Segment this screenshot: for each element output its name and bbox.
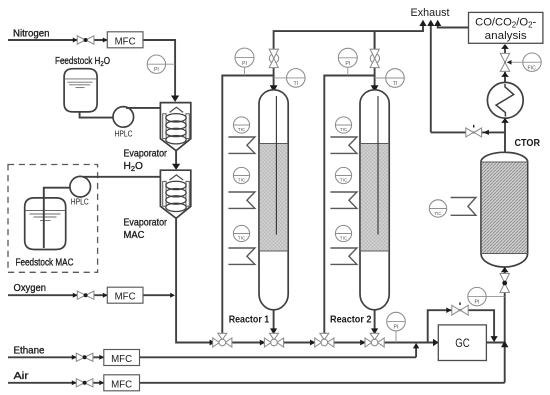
vessel evaporator H2O [160,103,190,151]
vessel feedstock MAC tank [25,198,66,250]
wire arrow into evaporator MAC [172,164,180,170]
svg-text:MFC: MFC [111,353,132,365]
svg-text:PI: PI [345,61,350,67]
wire exhaust line from CTOR bypass [430,26,432,133]
wire arrow before valve V4 [360,340,366,346]
wire air line to CTOR feed riser [8,268,505,383]
instrument TIC reactor 1 zone 1 [233,117,249,133]
wire arrow into CTOR exhaust valve [483,130,489,135]
wire oxygen line [8,294,171,296]
wire evaporator H2O to evaporator MAC [175,151,177,165]
wire reactor 2 outlet [374,310,376,330]
valve air shutoff [76,379,93,387]
wire riser valve V1 to reactor 1 feed [222,76,273,335]
valve nitrogen shutoff [77,36,94,44]
svg-text:Evaporator: Evaporator [124,218,168,229]
svg-text:MFC: MFC [115,35,136,47]
vessel CTOR [481,152,528,267]
wire CTOR top to exhaust branch [431,131,505,133]
wire arrow into evaporator H2O [171,96,179,102]
wire arrow into air MFC [99,380,104,385]
MFC air [104,375,140,391]
svg-text:PI: PI [394,325,399,331]
svg-text:Reactor 2: Reactor 2 [330,315,372,326]
svg-text:MFC: MFC [111,378,132,390]
valve oxygen shutoff [77,291,94,299]
instrument PI reactor 2 [338,48,357,75]
instrument PI CTOR feed [468,287,505,305]
wire arrow into CTOR bottom [501,267,509,272]
svg-text:Oxygen: Oxygen [14,283,47,294]
svg-text:FIC: FIC [528,65,537,71]
wire ethane line [8,346,416,357]
wire arrow reactor 2 outlet into valve V4 [371,328,378,334]
svg-text:TIC: TIC [238,127,246,132]
wire arrow into reactor 2 [371,85,379,92]
wire arrow before valve V1 [210,340,216,346]
instrument TIC reactor 2 zone 3 [335,225,351,241]
valve CTOR exhaust [466,125,482,137]
wire arrow before valve V2 [260,340,266,346]
wire arrow into HX bottom [501,118,509,123]
instrument TIC reactor 2 zone 2 [335,167,351,183]
svg-text:TIC: TIC [340,236,348,241]
wire CTOR feed riser through HX to analysis [504,49,506,153]
wire arrow into nitrogen MFC [103,38,108,43]
wire main header to GC [176,342,438,344]
svg-text:Air: Air [14,371,30,382]
wire reactor 1 outlet [273,310,275,330]
svg-text:MAC: MAC [124,230,145,241]
svg-text:Feedstock MAC: Feedstock MAC [16,258,74,269]
wire exhaust header from reactor relief valves [274,26,423,96]
valve reactor 1 relief [269,49,278,67]
wire arrow oxygen joins evaporator outlet [170,293,175,298]
svg-text:TIC: TIC [340,127,348,132]
heater reactor 1 zone 1 [228,137,255,153]
wire arrow into FIC valve [501,72,509,77]
instrument TIC CTOR [429,200,446,217]
valve CTOR bottom [500,274,509,293]
pump HPLC MAC [70,176,91,206]
wire arrow into air valve [72,380,77,385]
svg-text:CTOR: CTOR [515,138,541,149]
heater CTOR [451,198,476,216]
svg-text:TIC: TIC [238,178,246,183]
svg-text:PI: PI [242,61,247,67]
heat-exchanger HX cooler [487,82,523,118]
analysis box CO/CO2/O2 [469,12,543,43]
instrument PI nitrogen [147,55,175,73]
instrument FIC [507,53,542,71]
wire arrow into oxygen MFC [103,293,108,298]
wire GC bypass [428,310,494,342]
svg-text:HPLC: HPLC [115,130,133,139]
wire arrow before valve V3 [310,340,316,346]
instrument TIC reactor 1 zone 3 [233,225,249,241]
wire arrow ethane joins main line [413,343,419,349]
svg-text:TIC: TIC [238,236,246,241]
MFC oxygen [107,287,143,303]
wire arrow into nitrogen valve [73,38,78,43]
wire arrow into reactor 1 [270,85,278,92]
valve FIC control [500,53,509,71]
MFC nitrogen [107,32,143,48]
wire dip tube MAC tank to pump [44,188,70,248]
svg-text:analysis: analysis [485,30,527,42]
wire exhaust arrow 2 [427,20,434,26]
svg-text:MFC: MFC [115,291,136,303]
wire GC outlet to CTOR riser [486,342,504,344]
wire nitrogen line [8,40,175,97]
instrument TI reactor 1 [274,69,306,88]
vessel evaporator MAC [160,170,190,218]
svg-text:Reactor 1: Reactor 1 [229,315,270,326]
heater reactor 2 zone 3 [330,248,357,264]
svg-text:GC: GC [455,336,470,350]
MFC ethane [104,350,140,366]
wire arrow bypass rejoins outlet [491,336,498,342]
instrument PI reactor 1 [235,48,254,75]
svg-text:TIC: TIC [434,211,442,216]
svg-text:Evaporator: Evaporator [124,149,168,160]
svg-text:PI: PI [154,67,159,73]
node liquid level lines MAC tank [25,211,65,221]
node liquid level lines H2O tank [65,79,97,88]
wire reactor 2 feed down line [374,31,376,95]
wire pump to evaporator H2O [126,107,160,109]
reactor R1 vessel [259,90,288,310]
wire evaporator MAC outlet to main header [176,218,211,342]
valve ethane shutoff [76,353,93,361]
svg-text:Ethane: Ethane [14,346,45,357]
node feedstock MAC dashed enclosure [8,165,98,273]
svg-text:TI: TI [393,81,398,87]
wire arrow up to CTOR at junction [501,341,508,348]
instrument PI after valve V4 [387,312,406,342]
svg-text:HPLC: HPLC [71,197,89,206]
valve V4 three-way [365,333,384,347]
wire arrow reactor 1 outlet into valve V2 [270,328,277,334]
wire arrow into bypass valve [446,307,451,313]
wire exhaust arrow 1 [419,20,426,26]
wire pump to evaporator MAC [83,176,160,178]
vessel feedstock H2O tank [64,69,97,112]
wire arrow into GC [433,339,439,346]
instrument TIC reactor 2 zone 1 [335,117,351,133]
svg-text:TIC: TIC [340,178,348,183]
wire arrow into ethane MFC [99,355,104,360]
valve GC bypass [452,302,468,315]
instrument TI reactor 2 [375,69,405,88]
wire riser valve V3 to reactor 2 feed [324,76,374,335]
wire arrow into analysis box [501,44,509,49]
heater reactor 1 zone 3 [228,248,255,264]
wire arrow into oxygen valve [73,293,78,298]
svg-text:Exhaust: Exhaust [411,7,451,19]
svg-text:CO/CO2/O2-: CO/CO2/O2- [475,17,536,30]
heater reactor 2 zone 2 [330,192,357,208]
pump HPLC water [113,107,134,139]
instrument TIC reactor 1 zone 2 [233,167,249,183]
svg-text:Nitrogen: Nitrogen [13,29,50,40]
valve V1 three-way [213,333,232,347]
valve reactor 2 relief [370,49,379,67]
wire tank H2O to pump [80,112,114,118]
reactor R2 vessel [360,90,389,310]
valve V2 three-way [264,333,283,347]
valve V3 three-way [315,333,334,347]
wire arrow into ethane valve [72,355,77,360]
svg-text:PI: PI [475,300,480,306]
GC box [438,325,486,361]
svg-text:TI: TI [293,81,298,87]
heater reactor 2 zone 1 [330,137,357,153]
heater reactor 1 zone 2 [228,192,255,208]
wire exhaust line from analysis box [438,26,470,28]
wire exhaust arrow 3 [434,20,441,26]
